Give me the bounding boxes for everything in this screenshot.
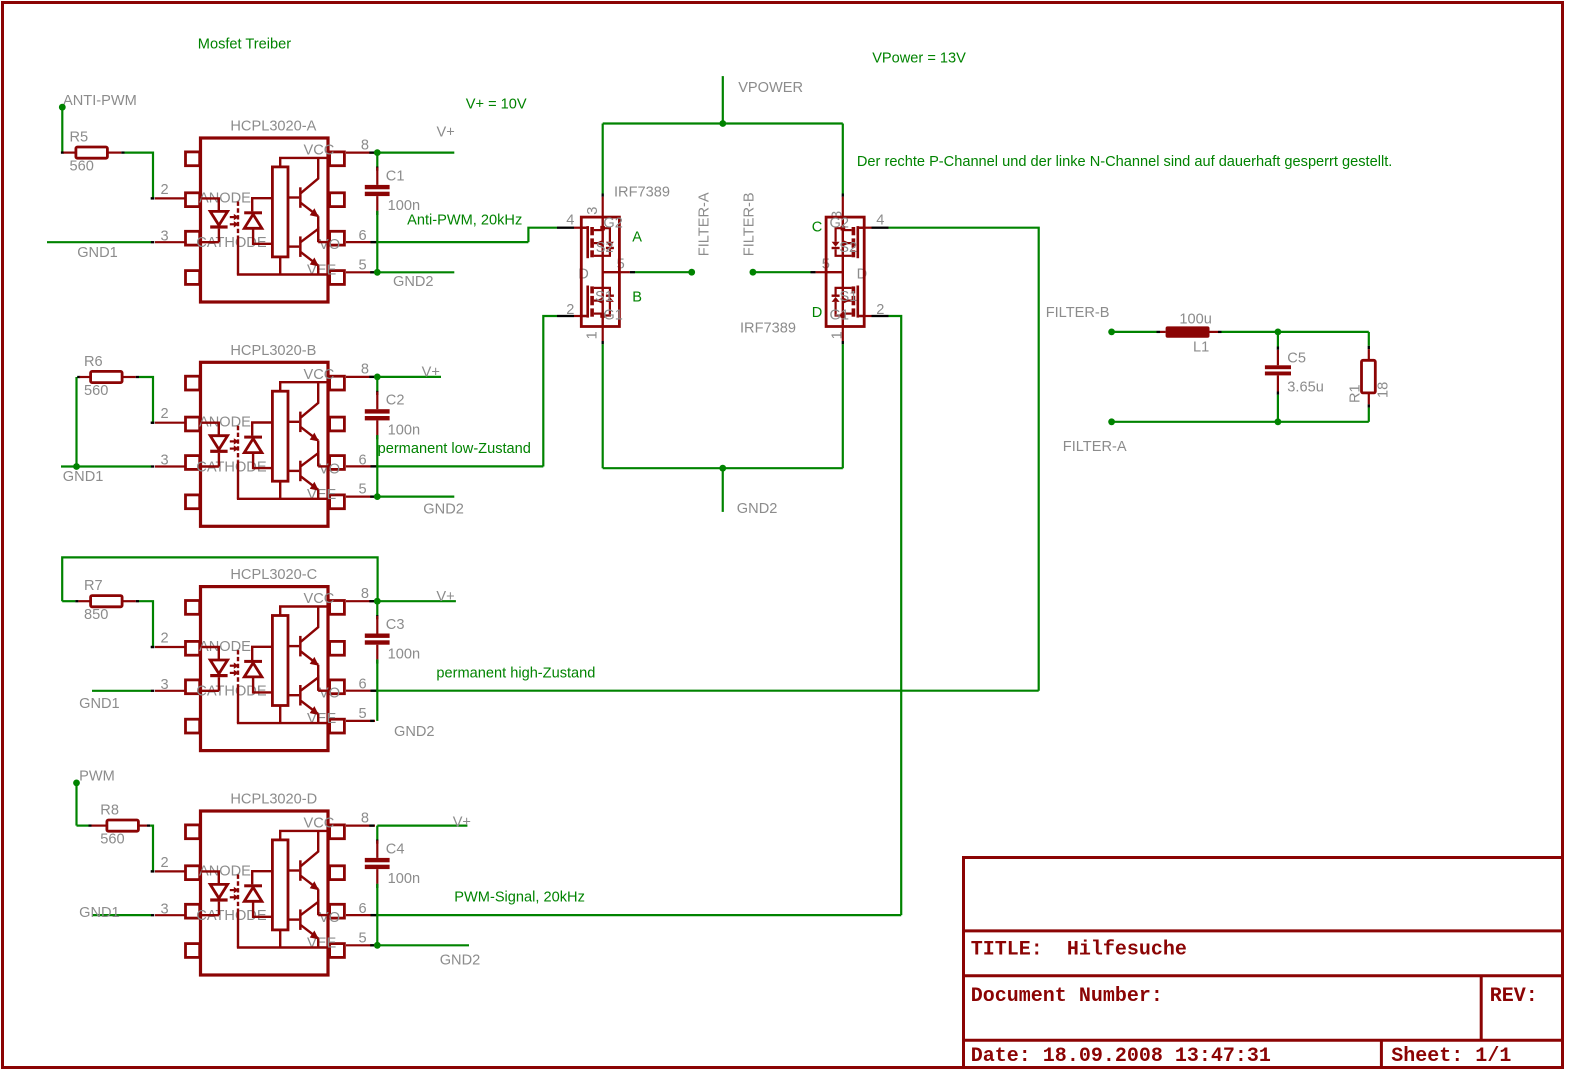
svg-text:GND2: GND2 bbox=[423, 501, 464, 517]
svg-text:100n: 100n bbox=[388, 647, 420, 663]
svg-text:HCPL3020-C: HCPL3020-C bbox=[230, 567, 317, 583]
svg-text:VO: VO bbox=[319, 237, 340, 253]
svg-text:FILTER-B: FILTER-B bbox=[1046, 305, 1110, 321]
svg-text:FILTER-A: FILTER-A bbox=[1063, 439, 1127, 455]
svg-text:1: 1 bbox=[584, 331, 600, 339]
svg-text:R7: R7 bbox=[84, 578, 103, 594]
svg-text:2: 2 bbox=[161, 182, 169, 198]
svg-text:VCC: VCC bbox=[304, 367, 335, 383]
svg-text:4: 4 bbox=[876, 213, 884, 229]
svg-text:V+: V+ bbox=[437, 125, 455, 141]
svg-text:560: 560 bbox=[70, 159, 94, 175]
svg-text:3.65u: 3.65u bbox=[1287, 380, 1324, 396]
svg-text:D: D bbox=[812, 305, 823, 321]
svg-text:REV:: REV: bbox=[1490, 985, 1538, 1008]
svg-text:R5: R5 bbox=[70, 129, 89, 145]
svg-text:PWM: PWM bbox=[79, 769, 115, 785]
svg-text:Date: 18.09.2008 13:47:31: Date: 18.09.2008 13:47:31 bbox=[971, 1045, 1271, 1068]
svg-text:PWM-Signal, 20kHz: PWM-Signal, 20kHz bbox=[454, 890, 585, 906]
svg-text:V+: V+ bbox=[436, 589, 454, 605]
svg-text:VCC: VCC bbox=[304, 816, 335, 832]
svg-text:100n: 100n bbox=[388, 871, 420, 887]
svg-text:GND2: GND2 bbox=[394, 724, 435, 740]
svg-text:3: 3 bbox=[161, 901, 169, 917]
svg-text:560: 560 bbox=[100, 832, 124, 848]
svg-text:V+: V+ bbox=[422, 365, 440, 381]
svg-text:VPOWER: VPOWER bbox=[738, 80, 803, 96]
svg-text:D: D bbox=[578, 266, 589, 282]
svg-text:3: 3 bbox=[161, 453, 169, 469]
svg-text:5: 5 bbox=[359, 930, 367, 946]
svg-text:2: 2 bbox=[161, 406, 169, 422]
svg-text:8: 8 bbox=[361, 586, 369, 602]
svg-text:VPower = 13V: VPower = 13V bbox=[872, 51, 966, 67]
svg-text:VCC: VCC bbox=[304, 143, 335, 159]
svg-text:G2: G2 bbox=[830, 216, 849, 232]
svg-text:HCPL3020-A: HCPL3020-A bbox=[230, 119, 316, 135]
svg-text:S1: S1 bbox=[595, 289, 613, 305]
svg-text:6: 6 bbox=[359, 677, 367, 693]
svg-text:R8: R8 bbox=[100, 802, 119, 818]
svg-text:IRF7389: IRF7389 bbox=[614, 184, 670, 200]
svg-text:GND1: GND1 bbox=[63, 469, 104, 485]
svg-text:560: 560 bbox=[84, 383, 108, 399]
svg-text:GND2: GND2 bbox=[393, 274, 434, 290]
svg-text:GND1: GND1 bbox=[79, 696, 120, 712]
svg-text:850: 850 bbox=[84, 607, 108, 623]
svg-text:5: 5 bbox=[359, 706, 367, 722]
svg-text:HCPL3020-B: HCPL3020-B bbox=[230, 343, 316, 359]
svg-text:V+: V+ bbox=[453, 814, 471, 830]
svg-text:VEE: VEE bbox=[307, 936, 336, 952]
svg-text:GND2: GND2 bbox=[737, 501, 778, 517]
svg-text:6: 6 bbox=[359, 452, 367, 468]
svg-text:L1: L1 bbox=[1193, 339, 1209, 355]
svg-text:Document Number:: Document Number: bbox=[971, 985, 1163, 1008]
svg-text:C5: C5 bbox=[1287, 351, 1306, 367]
svg-text:C: C bbox=[812, 220, 823, 236]
svg-text:FILTER-B: FILTER-B bbox=[742, 192, 758, 256]
svg-text:C2: C2 bbox=[386, 393, 405, 409]
svg-text:3: 3 bbox=[161, 228, 169, 244]
svg-text:8: 8 bbox=[361, 137, 369, 153]
svg-text:TITLE: Hilfesuche: TITLE: Hilfesuche bbox=[971, 939, 1187, 962]
svg-text:B: B bbox=[632, 290, 642, 306]
svg-text:4: 4 bbox=[566, 213, 574, 229]
svg-text:Sheet: 1/1: Sheet: 1/1 bbox=[1391, 1045, 1511, 1068]
svg-text:GND2: GND2 bbox=[440, 952, 481, 968]
svg-text:5: 5 bbox=[359, 257, 367, 273]
svg-text:2: 2 bbox=[161, 630, 169, 646]
svg-text:HCPL3020-D: HCPL3020-D bbox=[230, 792, 317, 808]
svg-text:6: 6 bbox=[359, 228, 367, 244]
svg-text:GND1: GND1 bbox=[77, 245, 118, 261]
svg-text:2: 2 bbox=[161, 855, 169, 871]
svg-text:8: 8 bbox=[361, 810, 369, 826]
svg-text:FILTER-A: FILTER-A bbox=[697, 192, 713, 256]
svg-text:8: 8 bbox=[361, 362, 369, 378]
svg-text:GND1: GND1 bbox=[79, 905, 120, 921]
svg-text:C4: C4 bbox=[386, 841, 405, 857]
svg-text:Anti-PWM, 20kHz: Anti-PWM, 20kHz bbox=[407, 213, 522, 229]
svg-text:VCC: VCC bbox=[304, 591, 335, 607]
svg-text:1: 1 bbox=[829, 331, 845, 339]
svg-text:G1: G1 bbox=[603, 308, 622, 324]
svg-text:ANTI-PWM: ANTI-PWM bbox=[63, 93, 137, 109]
svg-text:R1: R1 bbox=[1348, 384, 1364, 403]
svg-text:3: 3 bbox=[161, 677, 169, 693]
svg-text:C3: C3 bbox=[386, 617, 405, 633]
svg-text:6: 6 bbox=[359, 901, 367, 917]
svg-text:A: A bbox=[632, 229, 642, 245]
svg-text:VEE: VEE bbox=[307, 263, 336, 279]
svg-text:IRF7389: IRF7389 bbox=[740, 320, 796, 336]
svg-text:VO: VO bbox=[319, 910, 340, 926]
svg-text:permanent low-Zustand: permanent low-Zustand bbox=[378, 441, 531, 457]
svg-text:100u: 100u bbox=[1179, 312, 1211, 328]
svg-text:V+ = 10V: V+ = 10V bbox=[466, 97, 527, 113]
svg-text:G2: G2 bbox=[603, 216, 622, 232]
svg-text:VEE: VEE bbox=[307, 487, 336, 503]
svg-text:C1: C1 bbox=[386, 168, 405, 184]
svg-text:G1: G1 bbox=[830, 308, 849, 324]
svg-text:R6: R6 bbox=[84, 354, 103, 370]
svg-text:5: 5 bbox=[359, 482, 367, 498]
svg-text:100n: 100n bbox=[388, 422, 420, 438]
svg-text:S2: S2 bbox=[596, 240, 614, 256]
svg-text:S2: S2 bbox=[839, 240, 857, 256]
svg-text:18: 18 bbox=[1376, 382, 1392, 398]
svg-text:permanent high-Zustand: permanent high-Zustand bbox=[436, 666, 595, 682]
svg-text:S1: S1 bbox=[840, 289, 858, 305]
svg-text:Der rechte P-Channel und der l: Der rechte P-Channel und der linke N-Cha… bbox=[857, 154, 1392, 170]
svg-text:3: 3 bbox=[585, 207, 601, 215]
svg-text:Mosfet Treiber: Mosfet Treiber bbox=[198, 37, 291, 53]
svg-text:VO: VO bbox=[319, 461, 340, 477]
svg-text:VEE: VEE bbox=[307, 711, 336, 727]
svg-text:VO: VO bbox=[319, 686, 340, 702]
